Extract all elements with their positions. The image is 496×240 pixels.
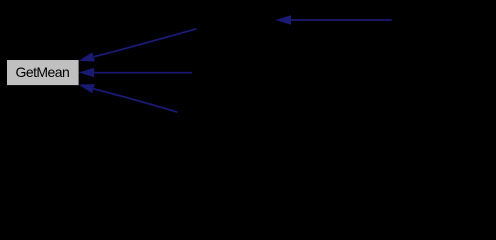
wire edge from caller A to GetMean (top diagonal) <box>79 29 197 62</box>
svg-text:GetMean: GetMean <box>16 64 70 80</box>
wire edge from caller C to GetMean (bottom diagonal) <box>79 84 178 112</box>
wire edge from caller D to caller A (top right horizontal) <box>276 15 392 25</box>
wire edge from caller B to GetMean (middle horizontal) <box>79 68 192 78</box>
node GetMean <box>7 60 80 86</box>
